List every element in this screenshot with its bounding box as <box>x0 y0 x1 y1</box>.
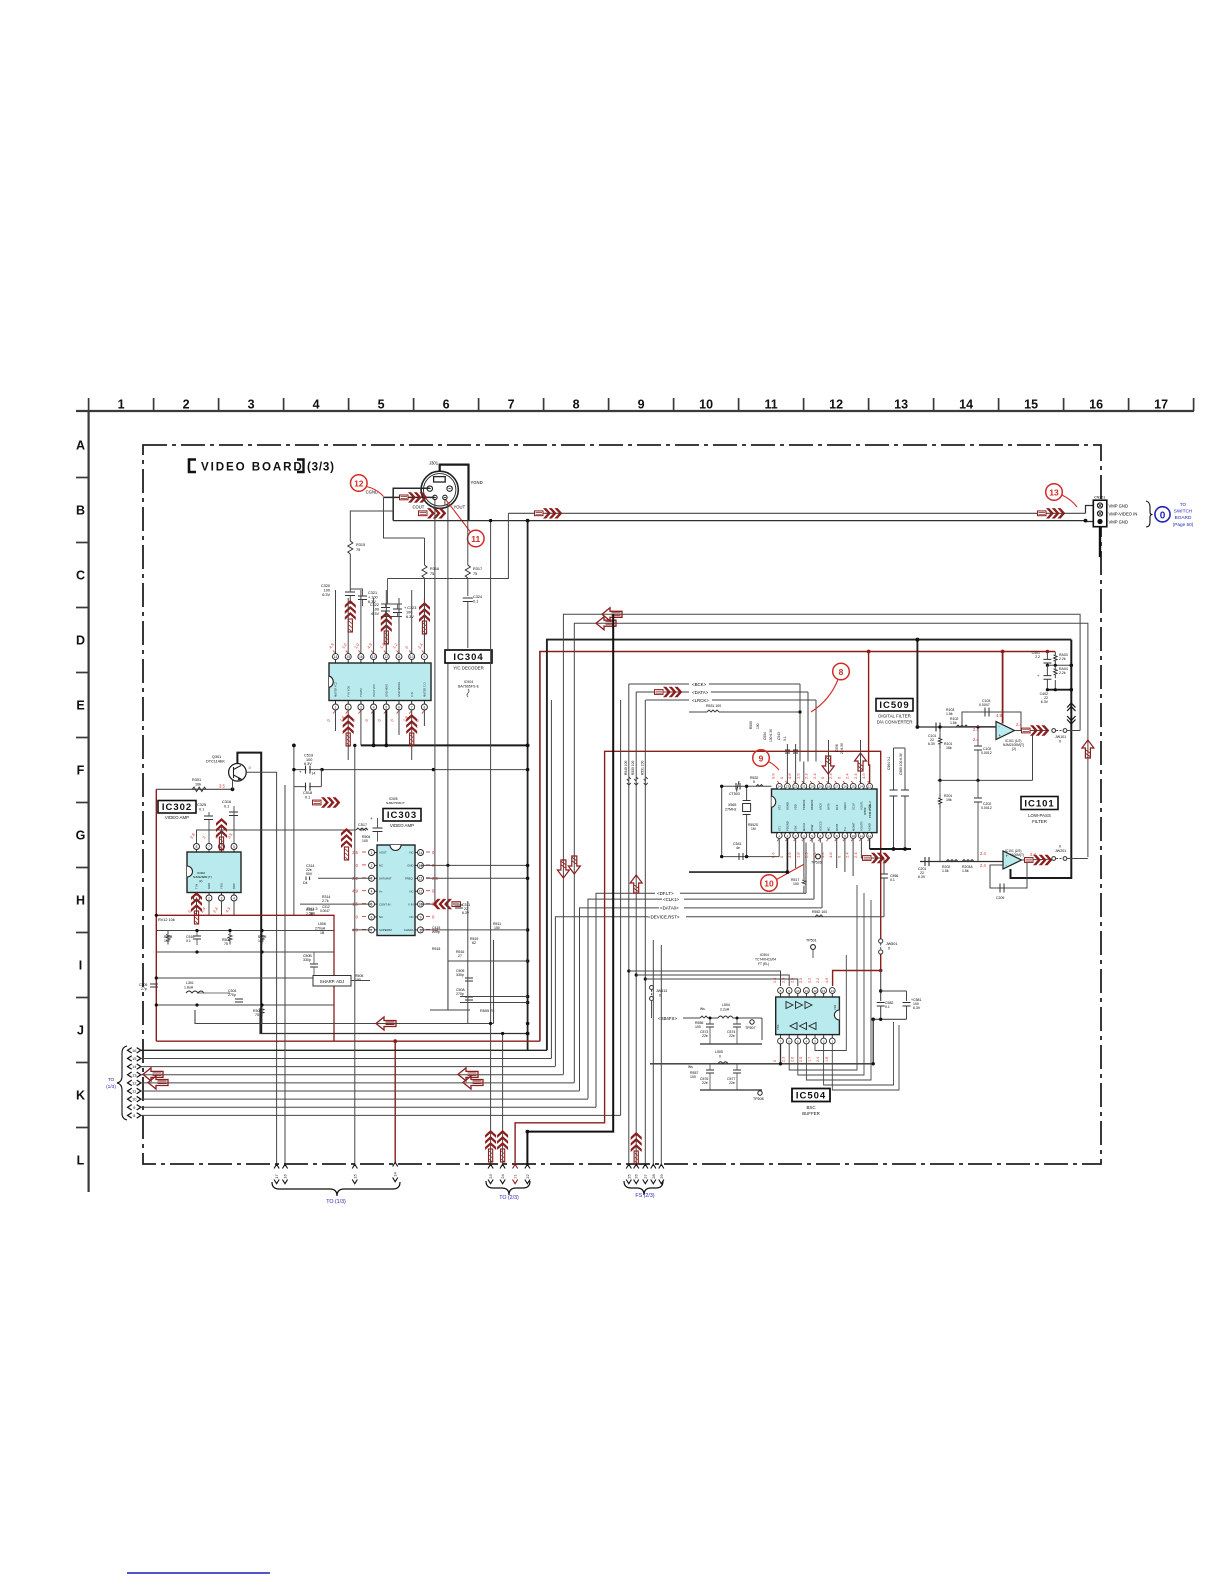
svg-text:0.1: 0.1 <box>885 1005 890 1009</box>
svg-text:C316: C316 <box>222 800 231 804</box>
svg-text:62: 62 <box>472 941 476 945</box>
svg-text:8: 8 <box>424 705 426 709</box>
wire red riser to D/A row <box>540 652 1055 1042</box>
svg-text:D/A CONVERTER: D/A CONVERTER <box>877 720 913 725</box>
svg-text:12: 12 <box>868 834 872 838</box>
svg-text:1M: 1M <box>751 827 756 831</box>
svg-text:75: 75 <box>473 572 477 576</box>
svg-text:PRNF50: PRNF50 <box>802 799 806 810</box>
page ruler left <box>87 411 89 1192</box>
label box IC101 <box>1021 797 1058 810</box>
wires lower grid IC302 <box>156 977 334 979</box>
svg-text:23: 23 <box>488 1174 493 1179</box>
svg-text:2.4: 2.4 <box>845 773 850 779</box>
svg-text:C320: C320 <box>321 584 330 588</box>
svg-text:11: 11 <box>419 890 423 894</box>
svg-text:4: 4 <box>313 398 320 412</box>
resistor R315 <box>348 541 353 554</box>
wire Q301 base row <box>156 788 232 790</box>
svg-text:COUT: COUT <box>413 505 425 510</box>
svg-text:220p: 220p <box>432 930 440 934</box>
svg-text:L506: L506 <box>318 922 326 926</box>
connector 0 to switch board blue <box>1155 507 1170 522</box>
svg-text:BUFFER: BUFFER <box>802 1111 820 1116</box>
svg-text:JW501: JW501 <box>886 942 898 946</box>
svg-text:2: 2 <box>183 398 190 412</box>
schematic dash-dot border <box>143 445 1101 1164</box>
svg-text:MCKO: MCKO <box>802 823 806 831</box>
svg-text:DATA: DATA <box>827 803 831 810</box>
svg-text:IC304: IC304 <box>453 652 483 663</box>
capacitor C101 <box>936 723 940 732</box>
block arrow down above IC509 <box>822 756 834 774</box>
signal arrow opamp1 out <box>1015 730 1050 732</box>
wire J301 box <box>393 488 430 520</box>
jumper JW501 <box>879 939 883 943</box>
signal arrow C517 <box>341 828 352 860</box>
svg-text:<CLK1>: <CLK1> <box>663 897 680 902</box>
svg-text:4.9: 4.9 <box>825 978 829 983</box>
svg-text:R545 100: R545 100 <box>624 761 628 775</box>
svg-text:VCC2 VCC: VCC2 VCC <box>372 684 376 697</box>
wire YGND thick loop <box>440 465 469 521</box>
connector CN301 <box>1093 500 1107 527</box>
brace FS <box>624 1181 663 1195</box>
svg-text:RSW: RSW <box>810 824 814 831</box>
svg-text:J301: J301 <box>429 461 439 466</box>
svg-text:2.5: 2.5 <box>352 850 358 855</box>
svg-text:(2): (2) <box>1012 747 1016 751</box>
svg-text:NC: NC <box>379 864 383 868</box>
svg-text:0: 0 <box>659 994 661 998</box>
wire IC302 vcc rail <box>197 830 357 844</box>
signal arrow up on DATA vertical <box>630 875 642 893</box>
svg-text:DGND: DGND <box>786 802 790 810</box>
svg-text:6.3V: 6.3V <box>1041 700 1049 704</box>
svg-text:7: 7 <box>411 705 413 709</box>
svg-text:100 6.3V: 100 6.3V <box>769 728 773 742</box>
svg-text:SOCCS: SOCCS <box>818 821 822 831</box>
wires to IC504 top pins <box>629 971 781 986</box>
signal arrow near CN301 <box>1038 508 1066 518</box>
svg-text:(2): (2) <box>199 879 202 883</box>
wire H row connectors <box>447 930 449 1010</box>
svg-text:R505 75: R505 75 <box>480 1009 494 1013</box>
svg-text:C209: C209 <box>996 896 1004 900</box>
svg-text:TP508: TP508 <box>753 1097 764 1101</box>
svg-text:V IN: V IN <box>408 902 413 906</box>
wire opamp1 input row <box>917 726 996 728</box>
svg-text:2: 2 <box>208 896 210 900</box>
svg-text:0: 0 <box>1160 510 1166 521</box>
testpoint TP507 <box>750 1020 754 1024</box>
svg-text:SATURAT: SATURAT <box>379 877 392 881</box>
svg-text:8: 8 <box>839 667 844 677</box>
svg-text:IC504: IC504 <box>760 953 769 957</box>
svg-text:1.8: 1.8 <box>795 852 800 858</box>
svg-text:14: 14 <box>860 785 864 789</box>
svg-text:C321: C321 <box>368 591 377 595</box>
wire BCK DATA LRCK verticals down <box>628 684 630 1166</box>
svg-text:L: L <box>77 1154 85 1168</box>
label box IC304 <box>445 650 492 663</box>
svg-text:10: 10 <box>852 834 856 838</box>
capacitor C582 <box>877 1003 885 1007</box>
svg-text:8: 8 <box>196 845 198 849</box>
svg-text:MUTER YC2: MUTER YC2 <box>334 682 338 697</box>
svg-text:JW101: JW101 <box>1055 735 1066 739</box>
svg-text:FREQ.: FREQ. <box>405 877 414 881</box>
svg-text:VIDEO AMP: VIDEO AMP <box>390 823 414 828</box>
svg-text:R515: R515 <box>432 947 440 951</box>
svg-text:1.5k: 1.5k <box>962 869 969 873</box>
svg-text:TO (1/3): TO (1/3) <box>326 1199 346 1205</box>
svg-text:NC: NC <box>409 889 413 893</box>
wire K13 riser to top row <box>563 614 1080 1074</box>
label box IC303 <box>383 809 421 822</box>
svg-text:NJM2750M IT: NJM2750M IT <box>386 801 405 805</box>
svg-text:DBNF50: DBNF50 <box>810 799 814 810</box>
testpoint TP508 <box>758 1091 762 1095</box>
svg-text:4.8: 4.8 <box>828 852 833 858</box>
capacitor C314 <box>318 877 372 879</box>
svg-text:15: 15 <box>352 1174 357 1179</box>
svg-text:330p: 330p <box>456 973 464 977</box>
svg-text:21: 21 <box>513 1174 518 1179</box>
svg-text:100: 100 <box>793 882 799 886</box>
svg-text:5: 5 <box>753 780 755 784</box>
svg-text:TH: TH <box>843 827 847 831</box>
svg-text:0: 0 <box>719 1055 721 1059</box>
svg-text:IC302: IC302 <box>162 802 192 813</box>
svg-text:10: 10 <box>410 655 414 659</box>
signal arrow CGND <box>400 492 428 502</box>
svg-text:4: 4 <box>233 896 235 900</box>
wire video to switch board <box>445 500 448 866</box>
signal arrow big left <box>376 1017 396 1030</box>
IC IC504 BSC buffer <box>776 997 840 1035</box>
svg-text:0.1: 0.1 <box>473 600 478 604</box>
svg-text:16: 16 <box>132 1048 137 1053</box>
svg-text:NC: NC <box>409 851 413 855</box>
svg-text:10: 10 <box>796 989 800 993</box>
exit group2 thick black <box>526 1132 528 1166</box>
jumper JW101 <box>1052 729 1056 733</box>
svg-text:9: 9 <box>638 398 645 412</box>
svg-text:TO (2/3): TO (2/3) <box>499 1195 519 1201</box>
svg-text:100: 100 <box>756 723 760 729</box>
svg-text:+ 100: + 100 <box>368 596 378 600</box>
exit group1 tags <box>274 1164 279 1168</box>
svg-text:14: 14 <box>334 655 338 659</box>
svg-text:2.2k: 2.2k <box>1059 671 1066 675</box>
svg-text:18: 18 <box>827 785 831 789</box>
net LRCK <box>646 699 689 701</box>
svg-text:(3/3): (3/3) <box>307 461 335 474</box>
svg-text:13: 13 <box>894 398 908 412</box>
wire bottom rail <box>1047 689 1071 691</box>
svg-text:<BCK>: <BCK> <box>692 682 707 687</box>
wire Q301 collector thick <box>237 753 261 1034</box>
signal arrow COUT <box>419 508 447 518</box>
svg-text:C543: C543 <box>777 732 781 740</box>
svg-text:100: 100 <box>695 1025 701 1029</box>
svg-text:12: 12 <box>829 398 843 412</box>
svg-text:CONT IN: CONT IN <box>379 902 390 906</box>
svg-text:2.4: 2.4 <box>812 773 817 779</box>
wire lower rail <box>938 779 1033 781</box>
svg-text:Q301: Q301 <box>212 755 221 759</box>
brace group2 <box>486 1181 530 1195</box>
svg-text:9: 9 <box>424 655 426 659</box>
connector left bus brace <box>117 1046 127 1120</box>
exit group2 tags <box>488 1164 493 1168</box>
svg-text:100: 100 <box>690 1075 696 1079</box>
svg-text:75: 75 <box>430 572 434 576</box>
svg-text:6: 6 <box>443 398 450 412</box>
svg-text:0.1: 0.1 <box>890 878 895 882</box>
block arrow up above IC509 <box>855 753 867 771</box>
wire V IN from COUT drop <box>434 500 436 904</box>
svg-text:27p: 27p <box>141 987 147 991</box>
svg-text:R550: R550 <box>749 721 753 729</box>
svg-text:270uH: 270uH <box>315 927 326 931</box>
svg-text:<DF.LT>: <DF.LT> <box>657 891 674 896</box>
wires below IC303 <box>352 929 372 931</box>
svg-text:VMP GND: VMP GND <box>1109 504 1128 509</box>
svg-text:MONIT: MONIT <box>851 822 855 831</box>
IC504 bottom pin wires bundle <box>780 1044 782 1064</box>
crystal X501 <box>743 804 751 812</box>
svg-text:14: 14 <box>312 772 316 776</box>
svg-text:2.6: 2.6 <box>790 1057 794 1062</box>
svg-text:2.4: 2.4 <box>973 727 979 732</box>
svg-text:27: 27 <box>458 954 462 958</box>
svg-text:2.5: 2.5 <box>790 978 794 983</box>
svg-text:50V: 50V <box>306 872 313 876</box>
svg-text:14: 14 <box>959 398 973 412</box>
capacitor CT503 <box>736 781 740 792</box>
svg-text:TO: TO <box>108 1077 115 1083</box>
svg-text:MC: MC <box>827 827 831 831</box>
svg-text:TC74VHCU04: TC74VHCU04 <box>755 958 776 962</box>
svg-text:RSTB: RSTB <box>835 824 839 831</box>
wire red bus bottom <box>156 1040 540 1042</box>
svg-text:Ws: Ws <box>700 1007 705 1011</box>
svg-text:0.9: 0.9 <box>771 773 776 779</box>
svg-text:BCK: BCK <box>835 804 839 810</box>
svg-text:11: 11 <box>860 834 863 838</box>
svg-text:6: 6 <box>398 705 400 709</box>
svg-text:7: 7 <box>208 845 210 849</box>
svg-text:R315: R315 <box>356 543 365 547</box>
title VIDEO BOARD 3/3 <box>189 460 196 473</box>
svg-text:75: 75 <box>224 942 228 946</box>
svg-text:2: 2 <box>347 705 349 709</box>
flag 13 circled <box>1046 484 1063 501</box>
wire J-row line with left arrow <box>195 1010 494 1024</box>
wire Q301 emitter to exit17 <box>246 772 276 1166</box>
svg-text:D: D <box>76 634 85 648</box>
block arrow up right side <box>1082 740 1094 758</box>
svg-text:+: + <box>1006 854 1009 859</box>
svg-text:3.5: 3.5 <box>219 784 225 789</box>
svg-text:1B: 1B <box>320 931 325 935</box>
svg-text:21: 21 <box>802 785 806 789</box>
svg-text:28: 28 <box>651 1174 656 1179</box>
svg-text:DTC114EK: DTC114EK <box>206 760 225 764</box>
wire CONT IN <box>300 903 372 905</box>
signal arrow up1 <box>345 600 356 632</box>
svg-text:10: 10 <box>699 398 713 412</box>
svg-text:22e: 22e <box>729 1034 735 1038</box>
svg-text:13: 13 <box>1049 487 1059 497</box>
svg-text:2.3: 2.3 <box>782 1057 786 1062</box>
page ruler top <box>76 410 1194 412</box>
wire from x527 dots taps <box>526 744 530 748</box>
svg-text:10k: 10k <box>195 782 201 786</box>
svg-text:12: 12 <box>813 989 817 993</box>
label box IC302 <box>158 801 196 814</box>
svg-text:<DATA0>: <DATA0> <box>660 906 679 911</box>
label box IC509 <box>876 699 913 712</box>
svg-text:VDD: VDD <box>794 804 798 810</box>
svg-text:GND MIXOU: GND MIXOU <box>397 682 401 697</box>
capacitor C201 <box>925 857 929 866</box>
svg-text:6.3V: 6.3V <box>371 612 379 616</box>
svg-text:2.4: 2.4 <box>853 773 858 779</box>
svg-text:17: 17 <box>1154 398 1168 412</box>
svg-text:0: 0 <box>773 1060 777 1062</box>
brace to switch board <box>1146 501 1153 527</box>
red arrows group2 <box>485 1130 496 1162</box>
svg-text:TP507: TP507 <box>745 1026 756 1030</box>
wire IC303 right gnd <box>421 864 528 866</box>
svg-text:DIGITAL FILTER: DIGITAL FILTER <box>878 714 911 719</box>
wire red to exit 14 <box>394 1041 396 1163</box>
svg-text:VOUTR: VOUTR <box>860 822 864 831</box>
signal arrow opamp2 out <box>1022 858 1052 861</box>
wire IC509 gnd rail thick <box>869 838 871 849</box>
svg-text:Y IN YOU: Y IN YOU <box>346 686 350 697</box>
svg-text:YOUT2: YOUT2 <box>359 688 363 697</box>
svg-text:YOU: YOU <box>220 883 224 889</box>
svg-text:17: 17 <box>835 785 839 789</box>
cable marker chevrons <box>1067 703 1075 711</box>
svg-text:Ws: Ws <box>688 1065 693 1069</box>
wire pin11 out row <box>861 838 884 858</box>
svg-text:+: + <box>370 816 373 821</box>
svg-text:LOW-PASS: LOW-PASS <box>1028 813 1051 818</box>
svg-text:13: 13 <box>868 785 872 789</box>
svg-text:VD2: VD2 <box>833 1004 837 1010</box>
wire thick gnd pins 4 5 <box>373 710 375 745</box>
svg-text:20: 20 <box>810 785 814 789</box>
svg-text:22e: 22e <box>702 1034 708 1038</box>
wire K15 riser <box>550 700 552 1058</box>
svg-text:2.2: 2.2 <box>816 978 820 983</box>
wire thick gnd rail to x527 <box>361 744 528 746</box>
capacitor C556b <box>880 874 888 878</box>
svg-text:C564 0.1: C564 0.1 <box>887 756 891 770</box>
svg-text:BOARD: BOARD <box>1175 515 1192 520</box>
IC IC509 digital filter <box>772 789 878 833</box>
svg-text:IC509: IC509 <box>863 807 867 815</box>
svg-text:D4: D4 <box>303 881 308 885</box>
svg-text:R550 100: R550 100 <box>631 761 635 775</box>
svg-text:75: 75 <box>255 1013 259 1017</box>
svg-text:22e: 22e <box>729 1081 735 1085</box>
svg-text:ZERO: ZERO <box>843 803 847 810</box>
svg-text:CN301: CN301 <box>1094 496 1105 500</box>
svg-text:2.2uH: 2.2uH <box>720 1008 730 1012</box>
svg-text:4: 4 <box>371 890 373 894</box>
exit group FS wires <box>652 940 654 1166</box>
testpoint TP501 <box>811 945 816 950</box>
svg-text:R317: R317 <box>473 567 482 571</box>
red arrows top row left <box>602 608 622 621</box>
wire red to op-amp1 <box>1002 652 1004 724</box>
svg-text:100: 100 <box>362 839 368 843</box>
svg-text:11: 11 <box>471 534 480 544</box>
svg-text:0.1: 0.1 <box>783 736 787 741</box>
wire red branch to IC509 pin13 <box>869 652 870 784</box>
svg-text:TP501: TP501 <box>806 939 817 943</box>
wire K8 riser <box>620 700 622 1115</box>
svg-text:LRCK: LRCK <box>818 803 822 810</box>
exit group1 wires <box>284 785 286 1166</box>
wire gnd bus to CN301 <box>393 520 1085 522</box>
svg-text:FT (EL): FT (EL) <box>758 962 769 966</box>
wire red main left vertical <box>155 789 157 1041</box>
svg-text:4e: 4e <box>736 846 740 850</box>
svg-text:26: 26 <box>634 1174 639 1179</box>
wire CN301 hookup <box>1086 506 1093 514</box>
svg-text:2.3: 2.3 <box>804 773 809 779</box>
wire IC509 osc loop bottom <box>722 856 780 858</box>
svg-text:14: 14 <box>419 851 423 855</box>
svg-text:2.7k: 2.7k <box>322 899 329 903</box>
svg-text:B: B <box>76 504 85 518</box>
svg-text:10: 10 <box>764 878 774 888</box>
svg-text:16: 16 <box>1089 398 1103 412</box>
svg-text:2.4: 2.4 <box>816 1057 820 1062</box>
svg-text:0.1: 0.1 <box>199 808 204 812</box>
signal arrow IC302 top <box>216 818 227 850</box>
wire K11 riser to DATA0 <box>580 908 660 1091</box>
svg-text:BSC: BSC <box>806 1105 815 1110</box>
svg-text:TP526: TP526 <box>811 861 822 865</box>
svg-text:IC504: IC504 <box>796 1091 826 1102</box>
svg-text:23: 23 <box>786 785 790 789</box>
svg-text:2.4: 2.4 <box>845 852 850 858</box>
svg-text:5: 5 <box>378 398 385 412</box>
svg-text:12: 12 <box>385 655 389 659</box>
svg-text:(Page 50): (Page 50) <box>1173 522 1194 527</box>
svg-text:2.4: 2.4 <box>980 851 986 856</box>
svg-text:25: 25 <box>626 1174 631 1179</box>
svg-text:GND: GND <box>407 864 413 868</box>
svg-text:15: 15 <box>346 655 350 659</box>
svg-text:6.3V: 6.3V <box>913 1006 921 1010</box>
svg-text:C IN: C IN <box>410 692 414 697</box>
svg-text:CT503: CT503 <box>729 792 740 796</box>
wires below IC302 grid <box>156 930 334 932</box>
svg-text:C565 100 6.3V: C565 100 6.3V <box>899 752 903 775</box>
svg-text:13: 13 <box>822 989 826 993</box>
signal arrows on K13 K12 mid <box>458 1068 478 1081</box>
svg-text:13: 13 <box>132 1072 137 1077</box>
